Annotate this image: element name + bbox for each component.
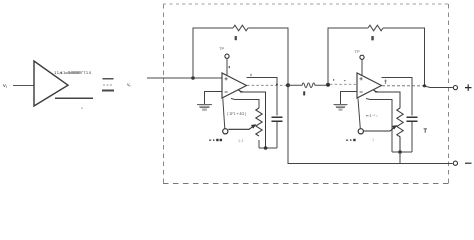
svg-text:vi: vi (3, 83, 7, 89)
svg-text:1-1: 1-1 (238, 139, 244, 143)
svg-text:1: 1 (372, 138, 374, 142)
svg-text:TP: TP (355, 49, 360, 54)
svg-text:TP: TP (219, 46, 224, 51)
svg-text:▪▪ 1⁻⁴ –: ▪▪ 1⁻⁴ – (366, 113, 379, 118)
svg-text:1 1 at 1=4b888897 7 1 4: 1 1 at 1=4b888897 7 1 4 (54, 70, 92, 75)
svg-text:a: a (81, 106, 83, 110)
svg-text:( 1F1 + 4Ω ): ( 1F1 + 4Ω ) (227, 111, 247, 116)
